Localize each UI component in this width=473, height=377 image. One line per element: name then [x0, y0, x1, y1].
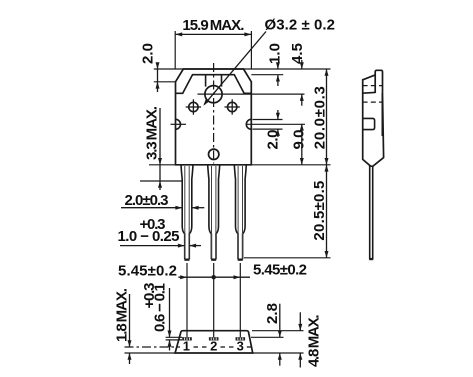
- front view molded step inner line: [176, 75, 252, 94]
- lead tip extension line: [244, 257, 331, 259]
- dimension 2.0 top-left: [140, 43, 160, 92]
- dimension 20.0±0.3 right: [311, 69, 328, 165]
- svg-text:2: 2: [210, 339, 217, 354]
- svg-text:3.3 MAX.: 3.3 MAX.: [144, 106, 161, 160]
- side notch right: [246, 119, 305, 129]
- svg-text:3: 3: [237, 339, 244, 354]
- side notch right extension lines: [253, 120, 283, 130]
- dimension 20.5±0.5 right: [311, 165, 328, 258]
- bottom view extension lines: [125, 331, 304, 353]
- lead 3: [234, 165, 246, 261]
- inner top extension line right: [251, 74, 283, 76]
- dimension 4.5 top-right: [289, 43, 306, 106]
- svg-text:1.8 MAX.: 1.8 MAX.: [113, 288, 130, 342]
- bottom circle: [209, 149, 219, 159]
- top edge extension line: [154, 68, 331, 70]
- svg-text:0.6 − 0.1: 0.6 − 0.1: [152, 283, 169, 332]
- dimension 4.8 MAX. bottom-right: [298, 312, 322, 367]
- dimension 5.45±0.2 left: [118, 263, 250, 280]
- bottom view lead section 2: [209, 337, 219, 340]
- svg-text:15.9 MAX.: 15.9 MAX.: [182, 17, 244, 34]
- dimension leader Ø3.2 ± 0.2: [203, 17, 335, 106]
- dimension 5.45±0.2 right text: [253, 262, 307, 279]
- dimension 1.8 MAX. bottom-left: [113, 288, 131, 364]
- crossed circle left: [186, 99, 201, 114]
- dimension 3.3 MAX. left: [144, 106, 163, 190]
- body bottom extension line: [149, 164, 331, 166]
- bottom view outline: [175, 331, 253, 353]
- side view hidden lines: [363, 86, 383, 103]
- side view tab: [375, 70, 382, 93]
- top notch above mounting hole: [206, 75, 222, 87]
- svg-text:5.45±0.2: 5.45±0.2: [118, 263, 177, 280]
- lead 2: [208, 165, 220, 261]
- bottom view lead section 1: [182, 337, 192, 340]
- svg-text:1: 1: [183, 339, 190, 354]
- svg-text:5.45±0.2: 5.45±0.2: [253, 262, 307, 279]
- dimension 1.0 +0.3/-0.25 lead tip width: [118, 216, 202, 248]
- dimension 2.8 bottom-right: [264, 303, 282, 366]
- side view lead: [369, 166, 373, 260]
- svg-text:1.0: 1.0: [267, 43, 284, 64]
- svg-text:2.0: 2.0: [265, 130, 282, 150]
- svg-text:20.5±0.5: 20.5±0.5: [311, 181, 328, 241]
- crossed circle right: [225, 99, 240, 114]
- svg-text:4.8 MAX.: 4.8 MAX.: [306, 315, 323, 368]
- dimension 9.0 right: [290, 124, 307, 165]
- side view body: [363, 75, 384, 166]
- chamfer bottom extension line left: [154, 81, 176, 83]
- svg-text:9.0: 9.0: [290, 130, 307, 150]
- front view body outline: [176, 69, 252, 165]
- dimension 1.0 top-right: [267, 43, 284, 86]
- dimension 15.9 MAX.: [175, 17, 251, 69]
- mounting hole: [205, 86, 222, 103]
- svg-text:2.8: 2.8: [264, 303, 281, 324]
- dimension 2.0±0.3 lead width: [121, 192, 204, 210]
- svg-text:2.0: 2.0: [140, 43, 157, 64]
- hole horizontal centerline and 4.5 extension line: [198, 93, 305, 95]
- dimension 0.6 +0.3/-0.1 lead thickness: [141, 283, 172, 351]
- vertical centerline: [213, 63, 215, 164]
- svg-text:20.0±0.3: 20.0±0.3: [311, 86, 328, 149]
- svg-text:Ø3.2 ± 0.2: Ø3.2 ± 0.2: [265, 17, 336, 34]
- side view recess notch: [363, 118, 375, 129]
- lead center extension lines to bottom view: [187, 263, 240, 337]
- dimension 2.0 right (notch): [265, 110, 282, 150]
- lead shoulder extension line: [140, 180, 182, 182]
- svg-text:2.0±0.3: 2.0±0.3: [125, 192, 169, 209]
- lead 1: [181, 165, 193, 261]
- svg-text:4.5: 4.5: [289, 43, 306, 64]
- svg-text:1.0 − 0.25: 1.0 − 0.25: [118, 228, 180, 245]
- bottom view lead section 3: [236, 337, 246, 340]
- bottom view centerline with pin numbers: [125, 339, 252, 354]
- side notch left: [171, 119, 187, 129]
